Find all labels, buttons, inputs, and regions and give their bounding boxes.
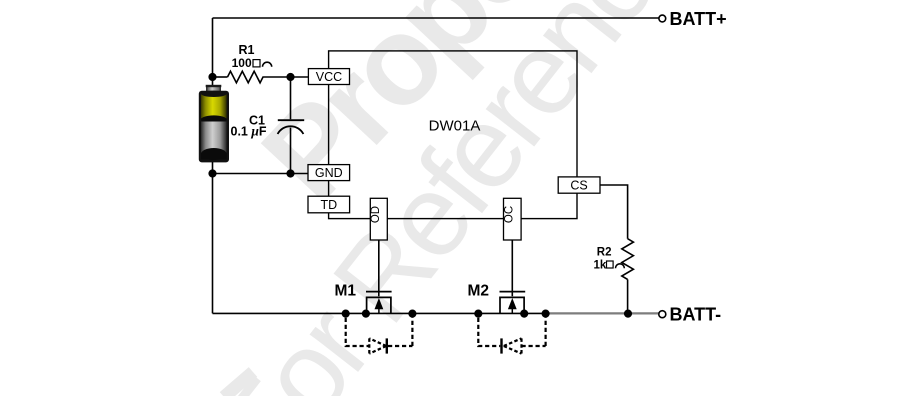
svg-text:OC: OC — [503, 206, 515, 223]
svg-text:BATT-: BATT- — [670, 305, 722, 325]
node: battery + / R1 junction — [208, 73, 216, 81]
svg-text:GND: GND — [315, 166, 343, 180]
terminal BATT+ (open circle) — [659, 15, 666, 22]
wire: CS pin right and down to R2 top — [600, 185, 628, 239]
watermark diagonal text "For Reference" / "Property" — [193, 0, 712, 396]
wire: battery - down to bottom rail — [212, 162, 214, 313]
wire: R2 bottom to rail — [627, 279, 629, 313]
wire: junction to VCC pin box — [291, 76, 309, 78]
op-amp/IC U1 DW01A body outline — [329, 51, 577, 219]
transistor M2 (N-MOSFET) — [500, 292, 526, 314]
node: M2 drain junction — [520, 310, 528, 318]
svg-text:R1: R1 — [239, 43, 255, 57]
wire: junction to R1 left lead — [213, 76, 228, 78]
svg-text:M2: M2 — [467, 282, 489, 299]
node: C1 / GND junction — [286, 169, 294, 177]
svg-text:TD: TD — [320, 198, 337, 212]
svg-text:VCC: VCC — [316, 70, 342, 84]
transistor M1 (N-MOSFET) — [366, 292, 392, 314]
capacitor C1 — [278, 79, 305, 174]
svg-text:1k: 1k — [594, 259, 607, 271]
diode D2: body diode of M2, dashed loop, cathode left — [478, 318, 545, 354]
value label 100 ohm (tofu box + broken omega glyph) — [232, 56, 272, 70]
node: M2 diode left junction — [474, 310, 482, 318]
svg-text:BATT+: BATT+ — [670, 9, 727, 29]
pin OC — [503, 198, 521, 240]
diode D1: body diode of M1, dashed loop, cathode right — [346, 318, 413, 354]
pin GND — [308, 165, 350, 181]
svg-text:OD: OD — [370, 206, 382, 223]
svg-text:R2: R2 — [597, 246, 612, 258]
wire: left vertical from top rail down to battery + — [212, 18, 214, 86]
resistor R1 — [228, 71, 291, 83]
svg-text:DW01A: DW01A — [429, 117, 481, 134]
pin CS — [558, 177, 600, 193]
svg-text:M1: M1 — [334, 282, 356, 299]
wire: GND row to GND pin box — [213, 173, 309, 175]
wire: OC pin down to M2 gate — [511, 240, 513, 296]
node: battery - / GND row junction — [208, 169, 216, 177]
wire: bottom rail (black segment, battery to M2 right) — [213, 312, 546, 314]
battery B1 (cell drawing) — [199, 85, 229, 163]
resistor R2 — [622, 239, 634, 280]
wire: OD pin down to M1 gate — [378, 240, 380, 296]
pin VCC — [308, 69, 349, 85]
node: M2 diode right junction — [542, 310, 550, 318]
node: M1 diode right junction — [408, 310, 416, 318]
terminal BATT- (open circle) — [659, 311, 666, 318]
pin TD — [308, 196, 350, 213]
wire: bottom rail (gray segment, M2 right to BATT-) — [546, 312, 659, 314]
pin OD — [370, 198, 387, 240]
value label 1k ohm (tofu box + broken omega glyph) — [594, 259, 625, 271]
svg-text:CS: CS — [570, 179, 587, 193]
node: M1 diode left junction — [342, 310, 350, 318]
node: M1 source junction — [362, 310, 370, 318]
svg-text:100: 100 — [232, 56, 252, 70]
svg-text:0.1 μF: 0.1 μF — [231, 124, 267, 139]
node: R1 / C1 / VCC junction — [286, 73, 294, 81]
wire: top rail from battery + to BATT+ terminal — [213, 17, 659, 19]
node: R2 bottom junction — [624, 310, 632, 318]
